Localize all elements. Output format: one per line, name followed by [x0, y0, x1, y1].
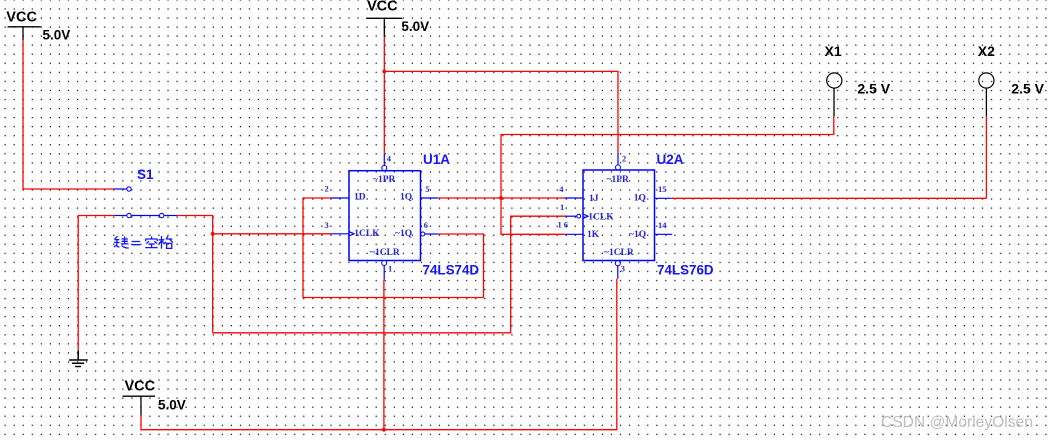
svg-text:1CLK: 1CLK: [354, 229, 380, 239]
wire VCC2 down to U1A pin4: [383, 37, 385, 154]
U1A pin 4 (top, ~1PR): [382, 154, 392, 171]
wire VCC3 node up to U1A pin1: [383, 280, 385, 430]
svg-text:2.5 V: 2.5 V: [857, 80, 890, 96]
U2A pin 4 (1J): [559, 184, 583, 198]
svg-text:16: 16: [558, 220, 571, 230]
switch S1: [115, 167, 178, 218]
svg-text:S1: S1: [137, 167, 154, 182]
svg-text:3: 3: [621, 264, 625, 274]
svg-text:1K: 1K: [587, 230, 600, 240]
U1A pin 3 (1CLK) with edge triangle: [325, 220, 355, 236]
svg-text:~1Q: ~1Q: [395, 229, 412, 239]
wire S1 node to U1A pin3: [213, 233, 331, 235]
svg-text:~1CLR: ~1CLR: [370, 248, 400, 258]
U2A pin 14 (~1Q) stub: [655, 220, 673, 234]
svg-text:4: 4: [559, 184, 564, 194]
junction S1 node: [211, 232, 215, 236]
svg-text:VCC: VCC: [125, 379, 156, 395]
U2A pin 2 (top, ~1PR): [616, 153, 627, 170]
U2A pin 16 (1K): [558, 220, 584, 235]
wire VCC2 node to U2A pin2: [384, 71, 618, 153]
svg-text:5: 5: [425, 184, 429, 194]
U2A pin 1 (1CLK) with bubble and triangle: [560, 202, 588, 218]
wire 1Q node up to X1: [501, 121, 834, 198]
svg-text:VCC: VCC: [6, 10, 37, 26]
probe X1: [825, 43, 891, 121]
svg-text:X2: X2: [978, 43, 995, 59]
wire VCC3 rail to U1A pin1 and U2A pin3: [141, 279, 617, 430]
U1A pin 6 (~1Q) with bubble: [421, 220, 438, 236]
wire U2A 1Q to X2: [672, 116, 987, 198]
wire ground to switch S1 lower throw: [78, 216, 114, 351]
svg-text:1D: 1D: [354, 192, 366, 202]
svg-text:~1Q: ~1Q: [629, 230, 646, 240]
svg-text:4: 4: [387, 154, 392, 164]
wire S1 node down and across to U2A 1CLK: [213, 216, 566, 333]
junction VCC2 node: [382, 70, 386, 74]
svg-text:5.0V: 5.0V: [401, 19, 429, 34]
svg-text:U2A: U2A: [657, 152, 684, 167]
power VCC3 (bottom): [123, 379, 186, 416]
U1A pin 1 (bottom, ~1CLR): [382, 261, 393, 280]
wire U1A 1Q to U2A 1J: [438, 197, 564, 199]
wire VCC1 to switch S1 top throw: [23, 40, 115, 189]
svg-text:6: 6: [424, 220, 428, 230]
ground: [69, 350, 88, 366]
wire U1A ~1Q feedback to 1D: [303, 198, 484, 298]
svg-text:3: 3: [325, 220, 329, 230]
svg-text:VCC: VCC: [367, 0, 398, 15]
svg-text:74LS74D: 74LS74D: [423, 262, 480, 277]
svg-text:5.0V: 5.0V: [43, 28, 71, 43]
op U1A box: [349, 152, 479, 277]
power VCC2 (top-middle): [366, 0, 429, 37]
svg-text:2: 2: [622, 154, 626, 164]
svg-text:1: 1: [388, 264, 392, 274]
svg-text:15: 15: [658, 184, 667, 194]
op U2A box: [583, 152, 714, 278]
wire S1 output to U1A 1CLK and down: [177, 216, 213, 333]
probe X2: [978, 43, 1045, 116]
svg-text:1CLK: 1CLK: [588, 213, 614, 223]
svg-text:1Q: 1Q: [634, 193, 646, 203]
junction U1A 1Q node: [499, 196, 503, 200]
svg-text:~1CLR: ~1CLR: [604, 248, 634, 258]
svg-text:1: 1: [560, 202, 564, 212]
svg-text:74LS76D: 74LS76D: [657, 263, 714, 278]
svg-text:U1A: U1A: [423, 152, 450, 167]
svg-text:1J: 1J: [589, 194, 599, 204]
label 键 = 空格 (switch key caption, CJK glyphs drawn): [114, 236, 173, 249]
svg-text:~1PR: ~1PR: [607, 175, 629, 185]
svg-text:2: 2: [325, 184, 329, 194]
wire 1Q node down to U2A 1K: [501, 198, 565, 234]
U2A pin 3 (bottom, ~1CLR): [615, 261, 625, 279]
svg-text:CSDN @MorleyOlsen: CSDN @MorleyOlsen: [881, 414, 1033, 431]
svg-text:5.0V: 5.0V: [158, 398, 186, 413]
U2A pin 15 (1Q): [655, 184, 672, 199]
svg-text:~1PR: ~1PR: [373, 175, 395, 185]
U1A pin 5 (1Q): [421, 184, 439, 198]
junction VCC3 node: [382, 428, 386, 432]
svg-text:1Q: 1Q: [400, 192, 412, 202]
svg-text:14: 14: [658, 220, 667, 230]
svg-text:X1: X1: [825, 43, 842, 59]
U1A pin 2 (1D): [325, 184, 350, 199]
svg-text:2.5 V: 2.5 V: [1011, 80, 1044, 96]
power VCC1 (top-left): [6, 10, 70, 43]
